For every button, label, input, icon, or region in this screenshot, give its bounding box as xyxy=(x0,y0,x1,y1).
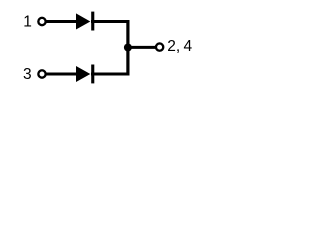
svg-text:1: 1 xyxy=(23,13,32,30)
svg-text:3: 3 xyxy=(23,66,32,83)
svg-text:4: 4 xyxy=(184,38,193,55)
svg-text:2,: 2, xyxy=(167,38,180,55)
